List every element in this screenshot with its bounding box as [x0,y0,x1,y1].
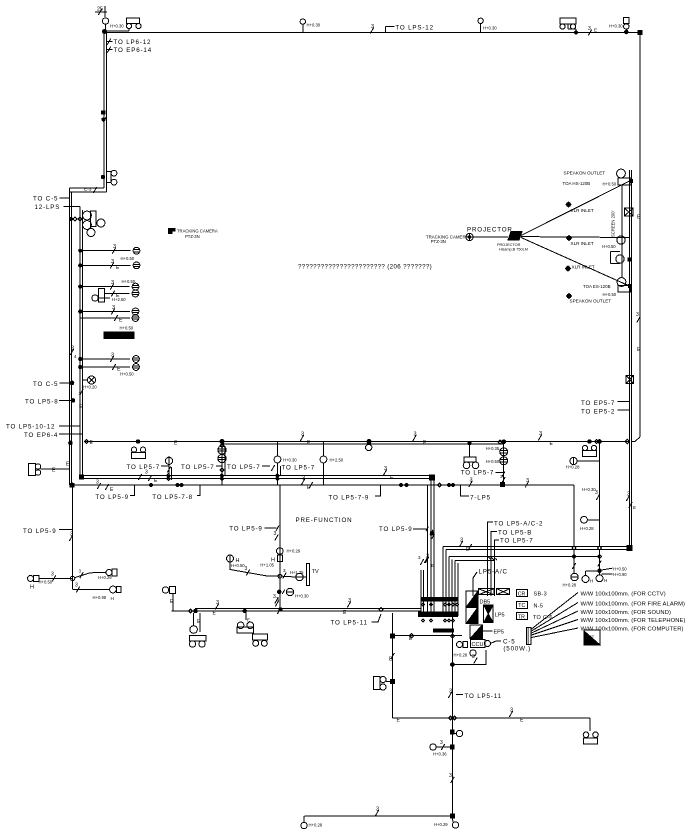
svg-text:H+0.50: H+0.50 [39,580,53,585]
svg-text:3: 3 [112,305,115,311]
svg-text:3: 3 [371,24,374,30]
svg-text:H+0.90: H+0.90 [613,572,627,577]
svg-text:TO LP5-7-8: TO LP5-7-8 [152,494,193,501]
svg-text:W/W 100x100mm. (FOR TELEPHONE): W/W 100x100mm. (FOR TELEPHONE) [581,618,686,624]
svg-text:W/W 100x100mm. (FOR SOUND): W/W 100x100mm. (FOR SOUND) [581,610,672,616]
svg-text:H+0.50: H+0.50 [486,459,500,464]
svg-text:LP5-A/C: LP5-A/C [479,569,508,576]
svg-text:PROJECTOR: PROJECTOR [497,243,521,247]
svg-text:H+0.30: H+0.30 [295,593,309,598]
svg-text:3: 3 [440,740,443,746]
svg-text:SPEAKON OUTLET: SPEAKON OUTLET [564,171,606,176]
svg-text:TO C-5: TO C-5 [33,196,58,203]
svg-text:SPEAKON OUTLET: SPEAKON OUTLET [570,299,612,304]
svg-text:3: 3 [301,432,304,438]
svg-text:TO LP5-7: TO LP5-7 [227,464,261,471]
svg-text:CR: CR [518,591,526,597]
svg-text:PTZ-3N: PTZ-3N [431,239,446,244]
svg-text:H+0.20: H+0.20 [83,385,97,390]
svg-text:3: 3 [70,532,73,538]
svg-text:H+0.50: H+0.50 [603,292,617,297]
svg-text:H+0.50: H+0.50 [602,244,616,249]
svg-text:H+0.30: H+0.30 [307,23,321,28]
svg-text:H: H [111,596,114,601]
svg-text:H+2.50: H+2.50 [330,458,344,463]
svg-text:H: H [590,579,593,584]
svg-text:H+0.30: H+0.30 [283,458,297,463]
svg-text:H+0.98: H+0.98 [93,595,107,600]
svg-text:3: 3 [75,583,78,589]
svg-text:3: 3 [384,466,387,472]
svg-text:3: 3 [145,470,148,476]
svg-text:3: 3 [472,654,475,660]
svg-text:XLR INLET: XLR INLET [571,208,594,213]
svg-text:TO LP6-12: TO LP6-12 [114,39,152,46]
svg-text:SCREEN 200': SCREEN 200' [611,210,616,237]
svg-text:TO EP6-4: TO EP6-4 [24,432,58,439]
svg-text:TO EP5-2: TO EP5-2 [581,409,615,416]
svg-text:TO LP5-B: TO LP5-B [498,530,532,537]
svg-text:3: 3 [595,490,598,496]
svg-text:3: 3 [460,538,463,544]
svg-text:C-5: C-5 [503,639,516,646]
svg-text:H+0.35: H+0.35 [486,446,500,451]
svg-text:TO LP5-9: TO LP5-9 [23,528,57,535]
svg-text:3: 3 [526,478,529,484]
svg-text:W/W 100x100mm. (FOR CCTV): W/W 100x100mm. (FOR CCTV) [581,592,666,598]
svg-text:3: 3 [71,346,74,352]
svg-text:H+0.50: H+0.50 [231,563,245,568]
svg-text:TO LP5-9: TO LP5-9 [379,526,413,533]
svg-text:TC: TC [518,603,525,609]
svg-text:H+0.30: H+0.30 [483,26,497,31]
svg-text:E: E [633,505,636,510]
svg-text:H+0.28: H+0.28 [563,583,577,588]
svg-text:3: 3 [245,566,248,572]
svg-text:TOA ES-120B: TOA ES-120B [583,284,611,289]
svg-text:3: 3 [449,773,452,779]
svg-text:3: 3 [96,480,99,486]
svg-text:H+0.50: H+0.50 [613,567,627,572]
svg-text:PTZ-3N: PTZ-3N [185,234,200,239]
svg-text:XLR INLET: XLR INLET [571,241,594,246]
svg-text:H+0.50: H+0.50 [121,256,135,261]
svg-text:H+0.30: H+0.30 [110,24,124,29]
svg-text:H&amp;B 750LM: H&amp;B 750LM [499,248,528,252]
svg-text:E: E [594,28,597,33]
svg-text:TO LP5-9: TO LP5-9 [95,494,129,501]
svg-text:TO LP5-11: TO LP5-11 [465,693,502,700]
svg-text:TV: TV [312,569,319,575]
svg-text:CCU: CCU [472,642,484,648]
svg-text:3: 3 [588,26,591,32]
svg-text:3: 3 [510,708,513,714]
svg-text:TO LP5-7: TO LP5-7 [127,464,161,471]
svg-text:3: 3 [636,312,639,318]
svg-text:H+2.50: H+2.50 [112,297,126,302]
svg-text:TO LP5-8: TO LP5-8 [25,399,59,406]
svg-text:TO LP5-9: TO LP5-9 [229,526,263,533]
svg-text:TOA HS-120B: TOA HS-120B [563,181,591,186]
svg-text:3: 3 [539,431,542,437]
svg-text:N-5: N-5 [534,603,544,609]
svg-text:H+1.05: H+1.05 [260,563,274,568]
svg-text:TO C-5: TO C-5 [33,381,58,388]
svg-text:H+0.29: H+0.29 [287,549,301,554]
svg-text:TO LP5-7: TO LP5-7 [181,464,215,471]
svg-text:LIFT: LIFT [586,634,595,639]
svg-text:TO LP5-A/C-2: TO LP5-A/C-2 [494,521,543,528]
svg-text:TRACKING CAMERA: TRACKING CAMERA [177,229,218,234]
svg-text:3: 3 [302,476,305,482]
svg-text:(500W.): (500W.) [503,646,531,653]
svg-text:12-LPS: 12-LPS [35,204,61,211]
svg-text:H+0.29: H+0.29 [434,822,448,827]
svg-text:3: 3 [414,432,417,438]
svg-text:H+0.50: H+0.50 [120,326,134,331]
svg-text:E-3: E-3 [84,187,92,193]
svg-text:3: 3 [376,807,379,813]
svg-text:3: 3 [449,689,452,695]
svg-text:TO LP5-7: TO LP5-7 [461,470,495,477]
svg-text:3: 3 [111,280,114,286]
svg-text:W/W 100x100mm. (FOR FIRE ALARM: W/W 100x100mm. (FOR FIRE ALARM) [581,602,686,608]
svg-text:H+0.28: H+0.28 [566,465,580,470]
svg-text:3: 3 [51,572,54,578]
svg-text:3: 3 [216,600,219,606]
svg-text:H+0.28: H+0.28 [309,823,323,828]
svg-text:TO LP5-10-12: TO LP5-10-12 [6,424,55,431]
svg-text:TO LP5-7-9: TO LP5-7-9 [329,495,370,502]
svg-text:SB-3: SB-3 [534,592,547,598]
svg-text:E: E [431,563,434,568]
svg-text:H+0.29: H+0.29 [98,575,112,580]
svg-text:H+0.36: H+0.36 [433,752,447,757]
svg-text:??????????????????????? (206 ?: ??????????????????????? (206 ???????) [298,264,432,271]
svg-text:H+0.50: H+0.50 [603,182,617,187]
svg-text:H: H [604,578,607,583]
svg-text:TO LP5-7: TO LP5-7 [500,538,534,545]
svg-text:H+0.28: H+0.28 [454,653,468,658]
svg-text:7-LP5: 7-LP5 [470,494,491,501]
svg-text:TO LPS-12: TO LPS-12 [395,25,434,32]
svg-text:TO LP5-11: TO LP5-11 [331,620,368,627]
svg-text:LP5: LP5 [495,613,505,619]
svg-text:TO EP6-14: TO EP6-14 [114,47,153,54]
svg-text:TO EP5-7: TO EP5-7 [581,400,615,407]
svg-text:H+0.28: H+0.28 [580,526,594,531]
svg-text:3: 3 [111,353,114,359]
svg-text:3: 3 [274,531,277,537]
svg-text:3: 3 [276,597,279,603]
svg-text:3: 3 [348,598,351,604]
svg-text:PROJECTOR: PROJECTOR [467,227,513,234]
svg-text:EP5: EP5 [494,630,504,636]
svg-text:H: H [30,585,34,591]
svg-text:3: 3 [113,244,116,250]
svg-text:3: 3 [470,478,473,484]
svg-text:H+0.30: H+0.30 [609,24,623,29]
svg-text:3: 3 [111,259,114,265]
svg-text:XLR INLET: XLR INLET [572,265,595,270]
svg-text:TO LP5-7: TO LP5-7 [282,465,316,472]
svg-text:PRE-FUNCTION: PRE-FUNCTION [296,517,353,524]
svg-text:3: 3 [627,492,630,498]
svg-text:TR: TR [518,615,525,621]
svg-text:H+0.50: H+0.50 [120,372,134,377]
